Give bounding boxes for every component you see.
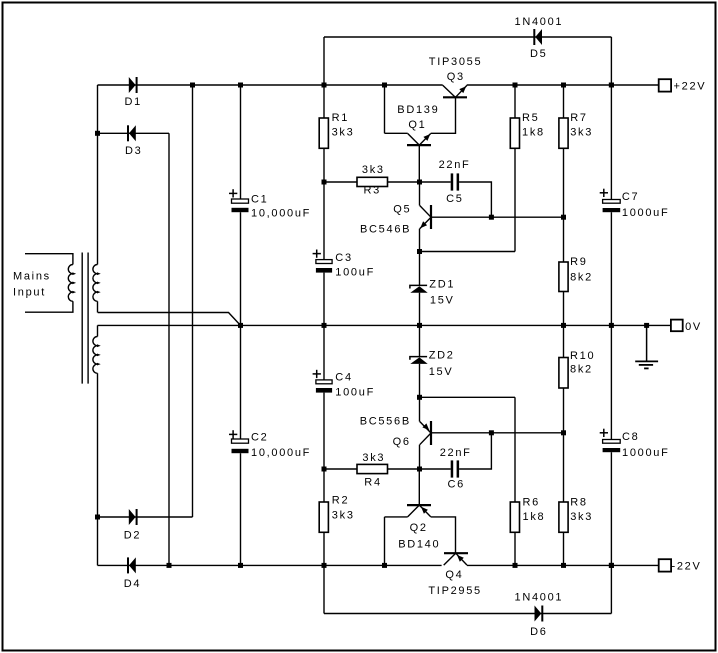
wire C8 bottom leg bbox=[610, 452, 612, 565]
wire D2 vertical to top rail bbox=[192, 85, 194, 517]
svg-text:8k2: 8k2 bbox=[570, 272, 593, 284]
svg-text:1N4001: 1N4001 bbox=[515, 592, 564, 604]
wire Q6 base horizontal bbox=[431, 432, 564, 434]
wire C5 right to base node bbox=[459, 182, 491, 217]
wire C2 top leg bbox=[240, 325, 242, 439]
svg-text:C6: C6 bbox=[448, 479, 465, 491]
resistor R1 3k3 bbox=[319, 112, 354, 148]
wire D3 horizontal bbox=[98, 132, 170, 134]
svg-text:Q1: Q1 bbox=[408, 119, 426, 131]
svg-text:-22V: -22V bbox=[672, 561, 702, 573]
wire D6 rail right leg bbox=[610, 565, 612, 613]
node C2/bottom rail bbox=[238, 563, 243, 568]
node R9/R10/0V bbox=[561, 323, 566, 328]
svg-text:R3: R3 bbox=[364, 185, 381, 197]
wire C7 bottom leg bbox=[610, 212, 612, 325]
wire C6 right to base node bbox=[459, 433, 491, 469]
svg-text:22nF: 22nF bbox=[439, 159, 471, 171]
wire Q6 collector vertical bbox=[419, 445, 421, 469]
svg-text:10,000uF: 10,000uF bbox=[251, 208, 311, 220]
wire R7 bottom leg bbox=[563, 148, 565, 217]
node -22V rail / C8 leg bbox=[609, 563, 614, 568]
node Q2 collector / bottom rail bbox=[382, 563, 387, 568]
wire Q5 collector vertical bbox=[419, 182, 421, 206]
node +22V rail / C7 leg bbox=[609, 83, 614, 88]
wire R1 bottom leg bbox=[323, 148, 325, 182]
node Q1 collector / top rail bbox=[382, 83, 387, 88]
wire 0V rail bbox=[98, 324, 672, 326]
diode D6 1N4001 bbox=[535, 606, 544, 622]
svg-text:1k8: 1k8 bbox=[522, 127, 545, 139]
wire R9 top leg bbox=[563, 217, 565, 262]
svg-text:3k3: 3k3 bbox=[570, 127, 593, 139]
svg-text:15V: 15V bbox=[429, 366, 454, 378]
svg-text:ZD1: ZD1 bbox=[429, 278, 455, 290]
node R8/R10/Q6 base bbox=[561, 430, 566, 435]
wire R7 top leg bbox=[563, 85, 565, 118]
transistor Q3 TIP3055 bbox=[443, 85, 467, 97]
zener ZD1 15V bbox=[410, 285, 428, 292]
capacitor C6 22nF bbox=[440, 447, 472, 491]
svg-text:3k3: 3k3 bbox=[332, 127, 355, 139]
node C6/Q6 base bbox=[489, 430, 494, 435]
wire D2 horizontal bbox=[98, 516, 193, 518]
wire Q2 base vertical bbox=[418, 469, 420, 505]
node R8/bottom rail bbox=[561, 563, 566, 568]
wire top rail right (+22V) bbox=[467, 84, 659, 86]
diode D5 1N4001 bbox=[533, 29, 542, 45]
terminal +22V bbox=[659, 79, 707, 92]
node C5/Q5 base bbox=[489, 215, 494, 220]
wire R5 top leg bbox=[514, 85, 516, 118]
svg-text:3k3: 3k3 bbox=[570, 511, 593, 523]
resistor R8 3k3 bbox=[559, 497, 593, 533]
wire C1 bottom leg bbox=[240, 212, 242, 325]
resistor R10 8k2 bbox=[559, 350, 595, 388]
node D3/bottom rail bbox=[167, 563, 172, 568]
wire C7 top leg bbox=[610, 85, 612, 200]
svg-text:R9: R9 bbox=[570, 256, 587, 268]
wire C3 bottom leg bbox=[323, 273, 325, 326]
svg-text:D6: D6 bbox=[530, 626, 547, 638]
svg-text:R8: R8 bbox=[570, 497, 587, 509]
svg-text:BD140: BD140 bbox=[398, 539, 440, 551]
terminal 0V bbox=[671, 320, 702, 333]
wire emitter node to R6 bbox=[420, 396, 516, 398]
svg-text:1000uF: 1000uF bbox=[622, 447, 670, 459]
resistor R6 1k8 bbox=[510, 497, 545, 533]
capacitor C4 100uF bbox=[313, 370, 375, 399]
svg-text:D3: D3 bbox=[125, 145, 142, 157]
capacitor C8 1000uF bbox=[600, 429, 670, 459]
svg-text:Mains: Mains bbox=[13, 271, 51, 283]
wire ZD2 bottom leg bbox=[419, 364, 421, 397]
svg-text:1000uF: 1000uF bbox=[622, 207, 670, 219]
svg-text:C3: C3 bbox=[335, 252, 352, 264]
node Q5 emitter / R5 / ZD1 bbox=[417, 249, 422, 254]
wire D3 to bottom rail bbox=[168, 133, 170, 565]
wire D6 rail left leg bbox=[323, 565, 325, 613]
resistor R4 3k3 bbox=[357, 452, 388, 489]
svg-text:1N4001: 1N4001 bbox=[515, 16, 564, 28]
node D2/top rail bbox=[190, 83, 195, 88]
wire C3 top leg bbox=[323, 182, 325, 260]
wire Q1 collector horizontal bbox=[385, 132, 408, 134]
wire top rail left (unregulated +) bbox=[98, 84, 443, 86]
svg-text:+22V: +22V bbox=[674, 81, 707, 93]
node secondary-top / D3 bbox=[95, 131, 100, 136]
svg-text:Q6: Q6 bbox=[393, 436, 411, 448]
svg-text:3k3: 3k3 bbox=[362, 452, 385, 464]
wire R3 to Q1 base node bbox=[388, 181, 451, 183]
svg-text:100uF: 100uF bbox=[335, 266, 375, 278]
svg-text:3k3: 3k3 bbox=[332, 510, 355, 522]
diode D4 bbox=[127, 557, 136, 573]
svg-text:BD139: BD139 bbox=[397, 104, 439, 116]
svg-text:Q5: Q5 bbox=[393, 204, 411, 216]
wire C4 bottom leg bbox=[323, 393, 325, 469]
wire Q2 emitter to Q4 base bbox=[431, 517, 456, 553]
svg-text:10,000uF: 10,000uF bbox=[251, 447, 311, 459]
svg-text:15V: 15V bbox=[430, 295, 455, 307]
node R6/bottom rail bbox=[513, 563, 518, 568]
wire bottom rail right (-22V) bbox=[467, 564, 659, 566]
diode D1 bbox=[129, 77, 138, 93]
svg-text:R6: R6 bbox=[523, 497, 540, 509]
node 0V/ground bbox=[644, 323, 649, 328]
wire Q5 base horizontal bbox=[431, 216, 564, 218]
wire Q5 emitter vertical bbox=[419, 229, 421, 286]
wire R2 bottom leg bbox=[323, 532, 325, 565]
svg-text:R7: R7 bbox=[570, 112, 587, 124]
svg-text:R10: R10 bbox=[570, 350, 595, 362]
wire R5 bottom leg bbox=[514, 148, 516, 251]
wire Q1 base vertical bbox=[418, 145, 420, 182]
transformer T1 primary winding (Mains) bbox=[25, 254, 76, 313]
svg-text:1k8: 1k8 bbox=[523, 511, 546, 523]
zener ZD2 15V bbox=[410, 357, 428, 364]
svg-text:D4: D4 bbox=[124, 578, 141, 590]
svg-text:22nF: 22nF bbox=[440, 447, 472, 459]
wire ZD2 top leg bbox=[419, 325, 421, 356]
svg-text:D2: D2 bbox=[124, 530, 141, 542]
capacitor C2 10,000uF bbox=[229, 430, 311, 459]
svg-text:0V: 0V bbox=[685, 321, 702, 333]
wire bottom rail left (unregulated -) bbox=[98, 564, 442, 566]
node R2/R4/C4 bbox=[322, 467, 327, 472]
wire R2 top leg bbox=[323, 469, 325, 502]
wire R3 left bbox=[324, 181, 357, 183]
capacitor C3 100uF bbox=[313, 250, 375, 279]
capacitor C5 22nF bbox=[439, 159, 471, 205]
terminal -22V bbox=[659, 559, 702, 572]
svg-text:C8: C8 bbox=[622, 431, 639, 443]
wire C1 top leg bbox=[240, 85, 242, 199]
resistor R7 3k3 bbox=[559, 112, 593, 148]
wire R6 bottom leg bbox=[514, 532, 516, 565]
transformer T1 secondary upper winding bbox=[93, 265, 101, 313]
svg-text:C5: C5 bbox=[446, 193, 463, 205]
node Q5 collector / R3 bbox=[417, 180, 422, 185]
wire D5 rail right leg bbox=[610, 37, 612, 85]
transistor Q5 BC546B bbox=[420, 205, 431, 229]
ground symbol bbox=[635, 325, 658, 368]
svg-text:BC546B: BC546B bbox=[360, 224, 411, 236]
wire D6 rail bbox=[324, 613, 611, 615]
node C1/top rail bbox=[238, 83, 243, 88]
svg-text:C2: C2 bbox=[251, 432, 268, 444]
wire R6 top leg bbox=[514, 397, 516, 502]
resistor R2 3k3 bbox=[319, 495, 354, 533]
svg-text:BC556B: BC556B bbox=[360, 416, 411, 428]
svg-text:TIP3055: TIP3055 bbox=[429, 56, 482, 68]
wire centre tap (upper) bbox=[98, 313, 241, 326]
wire Q1 emitter to Q3 base bbox=[431, 97, 456, 133]
svg-text:R4: R4 bbox=[364, 477, 381, 489]
transistor Q6 BC556B bbox=[420, 397, 432, 445]
wire R9 bottom leg bbox=[563, 292, 565, 326]
node C3/0V bbox=[322, 323, 327, 328]
wire Q2 collector horizontal bbox=[385, 516, 408, 518]
svg-text:ZD2: ZD2 bbox=[429, 350, 455, 362]
wire D5 rail left leg bbox=[323, 37, 325, 85]
wire D5 rail bbox=[324, 36, 611, 38]
node R7/R9/Q5 base bbox=[561, 215, 566, 220]
svg-text:Q4: Q4 bbox=[445, 569, 463, 581]
svg-text:C4: C4 bbox=[335, 372, 352, 384]
svg-text:Q3: Q3 bbox=[447, 71, 465, 83]
svg-text:3k3: 3k3 bbox=[362, 164, 385, 176]
node C1-C2 / 0V bbox=[238, 323, 243, 328]
svg-text:R1: R1 bbox=[332, 112, 349, 124]
wire ZD1 bottom leg bbox=[419, 293, 421, 326]
svg-text:100uF: 100uF bbox=[335, 387, 375, 399]
node C7/C8/0V bbox=[609, 323, 614, 328]
svg-text:D5: D5 bbox=[530, 48, 547, 60]
transistor Q4 TIP2955 bbox=[444, 553, 468, 565]
node R2/bottom rail bbox=[322, 563, 327, 568]
node ZD1/ZD2/0V bbox=[417, 323, 422, 328]
svg-text:D1: D1 bbox=[125, 96, 142, 108]
transistor Q2 BD140 bbox=[407, 505, 431, 517]
capacitor C1 10,000uF bbox=[229, 189, 311, 219]
capacitor C7 1000uF bbox=[600, 189, 670, 219]
node R1/R3/C3 bbox=[322, 180, 327, 185]
wire C8 top leg bbox=[610, 325, 612, 439]
node R1/top rail bbox=[322, 83, 327, 88]
svg-text:R2: R2 bbox=[332, 495, 349, 507]
diode D3 bbox=[127, 125, 136, 141]
svg-text:TIP2955: TIP2955 bbox=[428, 585, 481, 597]
wire Q1 collector vertical bbox=[384, 85, 386, 133]
wire R8 bottom leg bbox=[563, 532, 565, 565]
resistor R9 8k2 bbox=[559, 256, 593, 292]
svg-text:C7: C7 bbox=[622, 191, 639, 203]
transistor Q1 BD139 bbox=[407, 134, 431, 146]
wire R8 top leg bbox=[563, 433, 565, 502]
wire emitter node to R5 bbox=[420, 251, 516, 253]
node R5/top rail bbox=[513, 83, 518, 88]
wire R4 to Q2 base node bbox=[388, 468, 451, 470]
wire C2 bottom leg bbox=[240, 453, 242, 565]
label Mains Input bbox=[13, 271, 51, 299]
wire Q2 collector vertical bbox=[384, 517, 386, 566]
wire R10 top leg bbox=[563, 325, 565, 357]
wire C4 top leg bbox=[323, 325, 325, 380]
resistor R5 1k8 bbox=[510, 112, 545, 148]
node Q6 collector / R4 bbox=[417, 467, 422, 472]
wire R4 left bbox=[324, 468, 357, 470]
node C7/top rail bbox=[609, 83, 614, 88]
wire R1 top leg bbox=[323, 85, 325, 118]
node C8/bottom rail bbox=[609, 563, 614, 568]
node R7/top rail bbox=[561, 83, 566, 88]
resistor R3 3k3 bbox=[357, 164, 388, 197]
node Q6 emitter / R6 / ZD2 bbox=[417, 395, 422, 400]
svg-text:8k2: 8k2 bbox=[570, 364, 593, 376]
wire secondary top to D1/D3 bbox=[97, 85, 99, 265]
diode D2 bbox=[129, 509, 138, 525]
transformer T1 core bbox=[82, 253, 88, 384]
svg-text:C1: C1 bbox=[251, 194, 268, 206]
node secondary-bottom / D2 bbox=[95, 515, 100, 520]
svg-text:Q2: Q2 bbox=[410, 522, 428, 534]
transformer T1 secondary lower winding bbox=[93, 325, 101, 565]
svg-text:R5: R5 bbox=[522, 112, 539, 124]
wire R10 bottom leg bbox=[563, 388, 565, 433]
svg-text:Input: Input bbox=[13, 287, 46, 299]
